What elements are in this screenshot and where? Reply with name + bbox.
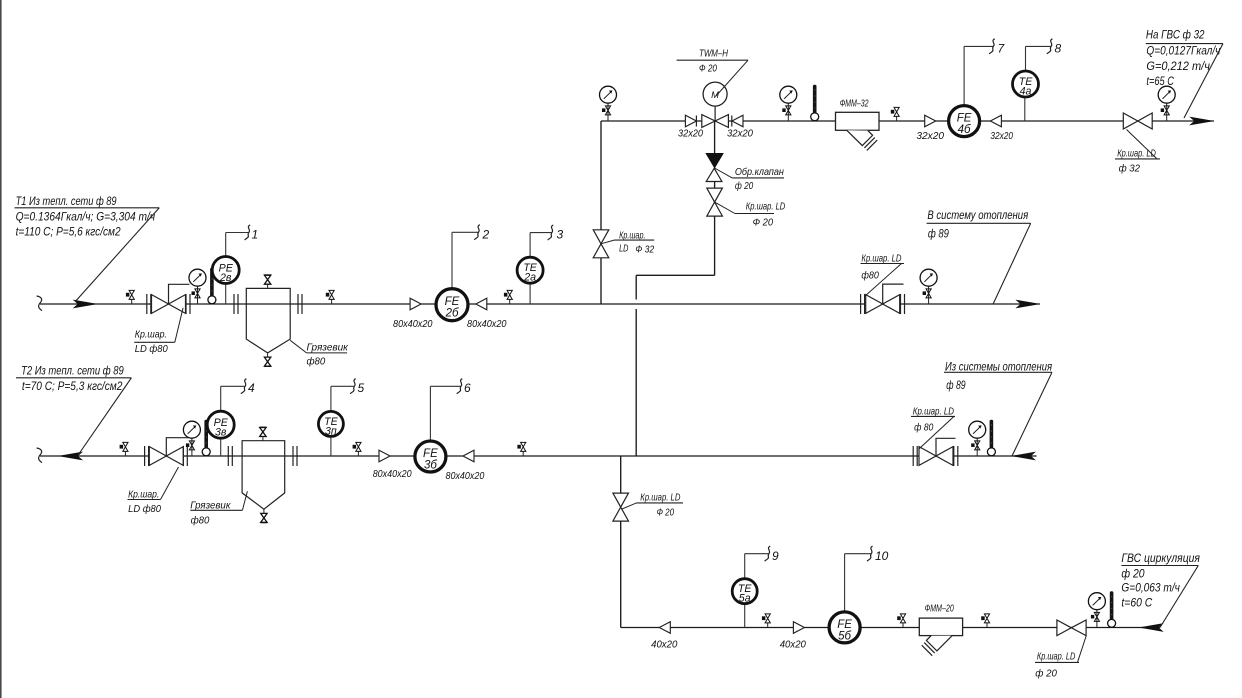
sensor lead 5 squiggle	[350, 379, 356, 394]
label Na GVS	[1146, 28, 1223, 119]
svg-text:В систему отопления: В систему отопления	[927, 208, 1028, 222]
svg-text:LD ф80: LD ф80	[128, 503, 161, 515]
svg-text:40х20: 40х20	[651, 640, 677, 651]
drain valve L2-b	[353, 442, 361, 456]
pressure gauge L4	[1088, 593, 1105, 628]
drain valve L4-a	[762, 614, 770, 628]
svg-text:ф 32: ф 32	[1119, 163, 1141, 175]
label Iz sistemy otopleniya	[944, 360, 1052, 457]
svg-text:Кр.шар. LD: Кр.шар. LD	[1117, 149, 1156, 160]
link horizontal y275	[636, 274, 714, 276]
svg-text:4а: 4а	[1020, 86, 1032, 98]
svg-text:Кр.шар. LD: Кр.шар. LD	[1037, 652, 1076, 663]
svg-text:G=0,212 т/ч: G=0,212 т/ч	[1146, 59, 1210, 73]
svg-text:2б: 2б	[445, 308, 459, 320]
reducer 80x40x20 left L1	[476, 298, 487, 310]
flange pair L1 before dirt trap	[234, 294, 238, 314]
instrument PE 3v	[207, 386, 244, 456]
svg-text:3п: 3п	[325, 425, 337, 437]
svg-text:5б: 5б	[838, 630, 851, 642]
thermometer L4	[1108, 591, 1116, 627]
svg-text:LD ф80: LD ф80	[135, 343, 168, 355]
ball valve f20 on riser x714	[707, 188, 786, 228]
svg-text:3: 3	[557, 228, 564, 242]
flow arrow right L1	[73, 300, 98, 309]
svg-text:32х20: 32х20	[990, 131, 1013, 142]
svg-text:Грязевик: Грязевик	[307, 343, 349, 354]
svg-text:ф 20: ф 20	[1035, 668, 1057, 680]
dirt trap (gryazevik) f80 L1	[246, 288, 290, 353]
ball valve L1 right (f80)	[861, 254, 905, 315]
pressure gauge L2 left	[183, 421, 200, 456]
instrument TE 5a	[732, 554, 768, 628]
riser from regulator down x714.5	[714, 121, 716, 275]
svg-text:1: 1	[252, 228, 259, 242]
svg-text:М: М	[711, 90, 719, 101]
drain valve L4-b	[897, 614, 905, 628]
flow arrow left L2	[58, 452, 83, 461]
label V sistemu otopleniya	[927, 208, 1031, 304]
svg-text:Т2 Из тепл. сети ф 89: Т2 Из тепл. сети ф 89	[21, 364, 124, 378]
svg-text:Из системы отопления: Из системы отопления	[945, 360, 1052, 374]
flange pair L2 after dirt trap	[293, 446, 297, 466]
pipe break squiggle L1	[37, 296, 42, 311]
svg-text:80х40х20: 80х40х20	[446, 471, 485, 482]
pipe GVS circulation line L4	[621, 627, 1160, 629]
svg-text:3в: 3в	[215, 427, 227, 439]
svg-text:Кр.шар. LD: Кр.шар. LD	[746, 202, 786, 213]
svg-text:32х20: 32х20	[916, 131, 944, 142]
svg-text:ф80: ф80	[191, 515, 210, 527]
ball valve f20 on riser x620	[613, 493, 683, 522]
reducer 32x20 left L3	[990, 115, 1001, 127]
drain valve L2-c	[517, 442, 525, 456]
reducer 32x20 left with bar	[727, 115, 753, 139]
reducer 80x40x20 left L2	[463, 450, 474, 462]
svg-text:ф 20: ф 20	[1121, 567, 1144, 581]
flange pair L2 before dirt trap	[228, 446, 232, 466]
flow meter FE 2b	[436, 232, 478, 320]
sensor lead 7 squiggle	[989, 39, 995, 54]
svg-text:Обр.клапан: Обр.клапан	[735, 166, 784, 178]
svg-text:ФММ–32: ФММ–32	[840, 99, 869, 110]
svg-text:Ф 20: Ф 20	[657, 508, 675, 519]
pipe break squiggle L2	[37, 448, 42, 463]
pipe T1 supply line L1	[40, 303, 1040, 305]
svg-text:3б: 3б	[424, 460, 437, 472]
sensor lead 1 squiggle	[245, 225, 251, 240]
label block T1	[15, 194, 160, 302]
svg-text:Q=0.1364Гкал/ч; G=3,304 т/ч: Q=0.1364Гкал/ч; G=3,304 т/ч	[16, 210, 156, 224]
svg-text:ф 80: ф 80	[914, 422, 933, 434]
svg-text:ФММ–20: ФММ–20	[925, 604, 954, 615]
svg-text:Ф 20: Ф 20	[753, 218, 774, 229]
reducer 40x20 right L4	[793, 622, 804, 634]
riser L2 to L4 at x620	[620, 456, 622, 628]
frame border left edge	[0, 0, 2, 698]
filter FMM-20	[919, 604, 962, 656]
svg-text:На ГВС ф 32: На ГВС ф 32	[1146, 28, 1205, 42]
drain valve L1-c	[504, 290, 512, 304]
flow meter FE 3b	[415, 386, 461, 472]
pressure gauge L3 left	[600, 86, 617, 121]
pressure gauge L3 right	[1158, 86, 1175, 121]
riser from L1 to L3 at x601	[600, 121, 602, 304]
svg-text:8: 8	[1055, 42, 1062, 56]
svg-text:ф 89: ф 89	[928, 227, 949, 241]
vent valve on dirt trap bottom L1	[264, 353, 271, 366]
ball valve Kr.shar LD f80 (L1 left)	[134, 284, 190, 355]
instrument TE 4a	[1013, 46, 1051, 121]
thermometer L2 right	[987, 420, 995, 456]
riser x636 lower part crossing L1 with gap	[635, 309, 637, 456]
pipe GVS supply line L3	[601, 120, 1214, 122]
svg-text:ф 89: ф 89	[946, 378, 965, 392]
pressure gauge L2 right	[969, 421, 986, 456]
sensor lead 2 squiggle	[474, 225, 480, 240]
svg-text:4б: 4б	[958, 124, 971, 136]
svg-text:5: 5	[358, 381, 365, 395]
reducer 32x20 right with bar	[678, 115, 703, 139]
svg-text:Кр.шар. LD: Кр.шар. LD	[640, 493, 680, 504]
svg-text:2в: 2в	[219, 272, 232, 284]
svg-text:40х20: 40х20	[780, 640, 806, 651]
svg-text:t=70 С; Р=5,3 кгс/см2: t=70 С; Р=5,3 кгс/см2	[22, 379, 123, 393]
svg-text:10: 10	[875, 549, 889, 563]
svg-text:Т1 Из тепл. сети ф 89: Т1 Из тепл. сети ф 89	[16, 194, 117, 208]
label TWM-N	[677, 49, 748, 97]
sensor lead 9 squiggle	[765, 546, 771, 561]
svg-text:FE: FE	[423, 448, 438, 460]
dirt trap (gryazevik) f80 L2	[242, 441, 285, 510]
pipe T2 return line L2	[40, 455, 1037, 457]
flow arrow right L3 end	[1189, 117, 1214, 126]
svg-text:4: 4	[248, 381, 255, 395]
svg-text:Ф 32: Ф 32	[635, 245, 654, 256]
svg-text:6: 6	[464, 381, 471, 395]
ball valve L2 right (f80)	[911, 407, 958, 467]
reducer 80x40x20 right L2	[379, 450, 390, 462]
reducer 40x20 left L4	[659, 622, 670, 634]
pressure gauge L1 left	[189, 269, 206, 304]
svg-text:Грязевик: Грязевик	[190, 500, 231, 511]
label GVS cirkulyaciya	[1121, 551, 1200, 628]
label block T2	[16, 364, 131, 456]
thermometer L1 left	[208, 268, 216, 304]
flow arrow left L4 end	[1138, 623, 1163, 632]
vent valve on dirt trap top L2	[260, 427, 267, 440]
sensor lead 3 squiggle	[548, 225, 554, 240]
ball valve f32 on riser x601	[593, 230, 654, 258]
svg-text:9: 9	[772, 549, 779, 563]
sensor lead 8 squiggle	[1047, 39, 1053, 54]
instrument TE 3p	[318, 386, 354, 456]
svg-text:t=110 С; Р=5,6 кгс/см2: t=110 С; Р=5,6 кгс/см2	[16, 225, 121, 239]
svg-text:t=65 С: t=65 С	[1146, 74, 1174, 88]
pressure gauge L1 right	[920, 269, 937, 304]
svg-text:Q=0,0127Гкал/ч: Q=0,0127Гкал/ч	[1146, 44, 1221, 58]
svg-text:ГВС циркуляция: ГВС циркуляция	[1121, 551, 1200, 565]
pressure gauge L3 mid	[780, 86, 797, 121]
svg-text:G=0,063 т/ч: G=0,063 т/ч	[1121, 581, 1180, 595]
svg-text:ТWМ–Н: ТWМ–Н	[699, 49, 728, 60]
filter FMM-32	[836, 99, 880, 151]
svg-text:LD: LD	[619, 244, 629, 255]
ball valve Kr.shar LD f80 (L2 left)	[128, 438, 191, 515]
reducer 80x40x20 right L1	[410, 298, 421, 310]
svg-text:Кр.шар.: Кр.шар.	[128, 490, 159, 501]
svg-text:Ф 20: Ф 20	[699, 64, 717, 75]
svg-text:5а: 5а	[739, 593, 751, 605]
svg-text:ф80: ф80	[861, 270, 879, 282]
svg-text:80х40х20: 80х40х20	[467, 319, 507, 330]
svg-text:FE: FE	[837, 619, 852, 631]
svg-text:FE: FE	[445, 296, 460, 308]
flange pair L1 after dirt trap	[298, 294, 302, 314]
thermometer L3	[811, 85, 819, 121]
label gryazevik L2	[190, 491, 247, 526]
vent valve on dirt trap top L1	[264, 275, 271, 288]
flow meter FE 4b	[949, 46, 993, 136]
ball valve f32 L3 right	[1115, 113, 1160, 175]
drain valve L4-c	[981, 614, 989, 628]
svg-text:2а: 2а	[523, 272, 536, 284]
instrument TE 2a	[517, 233, 551, 304]
instrument PE 2v	[212, 233, 248, 305]
drain valve L3-a	[891, 107, 899, 121]
label gryazevik L1	[290, 340, 349, 367]
svg-text:80х40х20: 80х40х20	[393, 319, 433, 330]
flow meter FE 5b	[829, 554, 871, 643]
flow arrow right L1 end	[1015, 300, 1040, 309]
sensor lead 4 squiggle	[241, 379, 247, 394]
svg-text:ф 20: ф 20	[735, 180, 754, 192]
drain valve L1-b	[326, 290, 334, 304]
svg-text:32х20: 32х20	[727, 129, 753, 140]
svg-text:32х20: 32х20	[678, 129, 703, 140]
vent valve on dirt trap bottom L2	[261, 509, 268, 522]
regulator valve TWM-N with M drive	[702, 82, 729, 127]
svg-text:FE: FE	[957, 113, 972, 125]
flow arrow left L2 end	[1011, 452, 1036, 461]
drain valve L2-a	[120, 442, 128, 456]
reducer 32x20 right L3	[925, 115, 936, 127]
svg-text:Кр.шар.: Кр.шар.	[135, 330, 167, 341]
svg-text:t=60 С: t=60 С	[1121, 596, 1152, 610]
check valve (Obr.klapan) on riser	[706, 154, 723, 182]
sensor lead 6 squiggle	[457, 379, 463, 394]
drain valve L1-a	[126, 290, 134, 304]
label Obr.klapan	[715, 166, 785, 192]
sensor lead 10 squiggle	[867, 546, 873, 561]
svg-text:ф80: ф80	[307, 356, 326, 368]
svg-text:2: 2	[482, 228, 490, 242]
thermometer L2 left	[202, 420, 210, 456]
svg-text:80х40х20: 80х40х20	[373, 469, 412, 480]
riser x636 upper part	[635, 275, 637, 299]
ball valve f20 L4	[1035, 620, 1086, 680]
svg-text:Кр.шар. LD: Кр.шар. LD	[861, 254, 901, 265]
